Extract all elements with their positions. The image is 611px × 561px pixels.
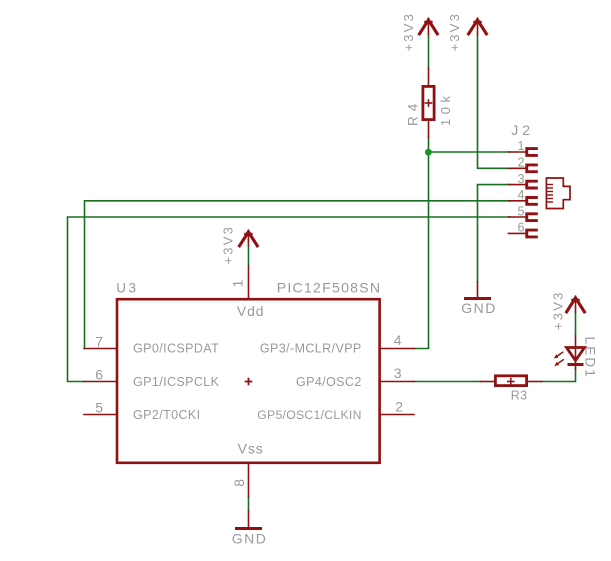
svg-text:+3V3: +3V3: [221, 225, 236, 265]
svg-text:GP2/T0CKI: GP2/T0CKI: [133, 408, 201, 422]
svg-text:5: 5: [95, 400, 103, 416]
svg-text:GP5/OSC1/CLKIN: GP5/OSC1/CLKIN: [257, 408, 361, 422]
svg-text:4: 4: [518, 188, 525, 202]
svg-text:10k: 10k: [438, 92, 453, 126]
svg-text:R3: R3: [511, 389, 528, 403]
svg-text:GP0/ICSPDAT: GP0/ICSPDAT: [133, 342, 219, 356]
svg-text:GND: GND: [461, 300, 497, 316]
svg-text:7: 7: [95, 334, 103, 350]
svg-text:GP4/OSC2: GP4/OSC2: [296, 375, 362, 389]
svg-text:5: 5: [518, 204, 525, 218]
svg-text:+3V3: +3V3: [447, 12, 462, 52]
svg-text:+3V3: +3V3: [401, 12, 416, 52]
svg-text:GND: GND: [232, 531, 268, 547]
svg-text:LED1: LED1: [583, 337, 598, 380]
svg-text:GP1/ICSPCLK: GP1/ICSPCLK: [133, 375, 220, 389]
svg-text:6: 6: [518, 221, 525, 235]
svg-text:1: 1: [230, 280, 246, 288]
svg-text:3: 3: [394, 365, 402, 381]
svg-text:4: 4: [394, 332, 402, 348]
svg-text:3: 3: [518, 172, 525, 186]
svg-text:Vss: Vss: [238, 441, 264, 457]
svg-text:1: 1: [518, 139, 525, 153]
svg-text:8: 8: [231, 479, 247, 487]
svg-text:PIC12F508SN: PIC12F508SN: [277, 279, 382, 295]
svg-text:2: 2: [395, 399, 403, 415]
svg-text:GP3/-MCLR/VPP: GP3/-MCLR/VPP: [260, 342, 362, 356]
svg-text:6: 6: [95, 367, 103, 383]
svg-text:Vdd: Vdd: [237, 303, 265, 319]
svg-text:J2: J2: [511, 122, 534, 138]
svg-text:+3V3: +3V3: [551, 290, 566, 330]
svg-text:2: 2: [518, 156, 525, 170]
svg-text:U3: U3: [116, 281, 138, 296]
svg-text:R4: R4: [406, 99, 421, 126]
